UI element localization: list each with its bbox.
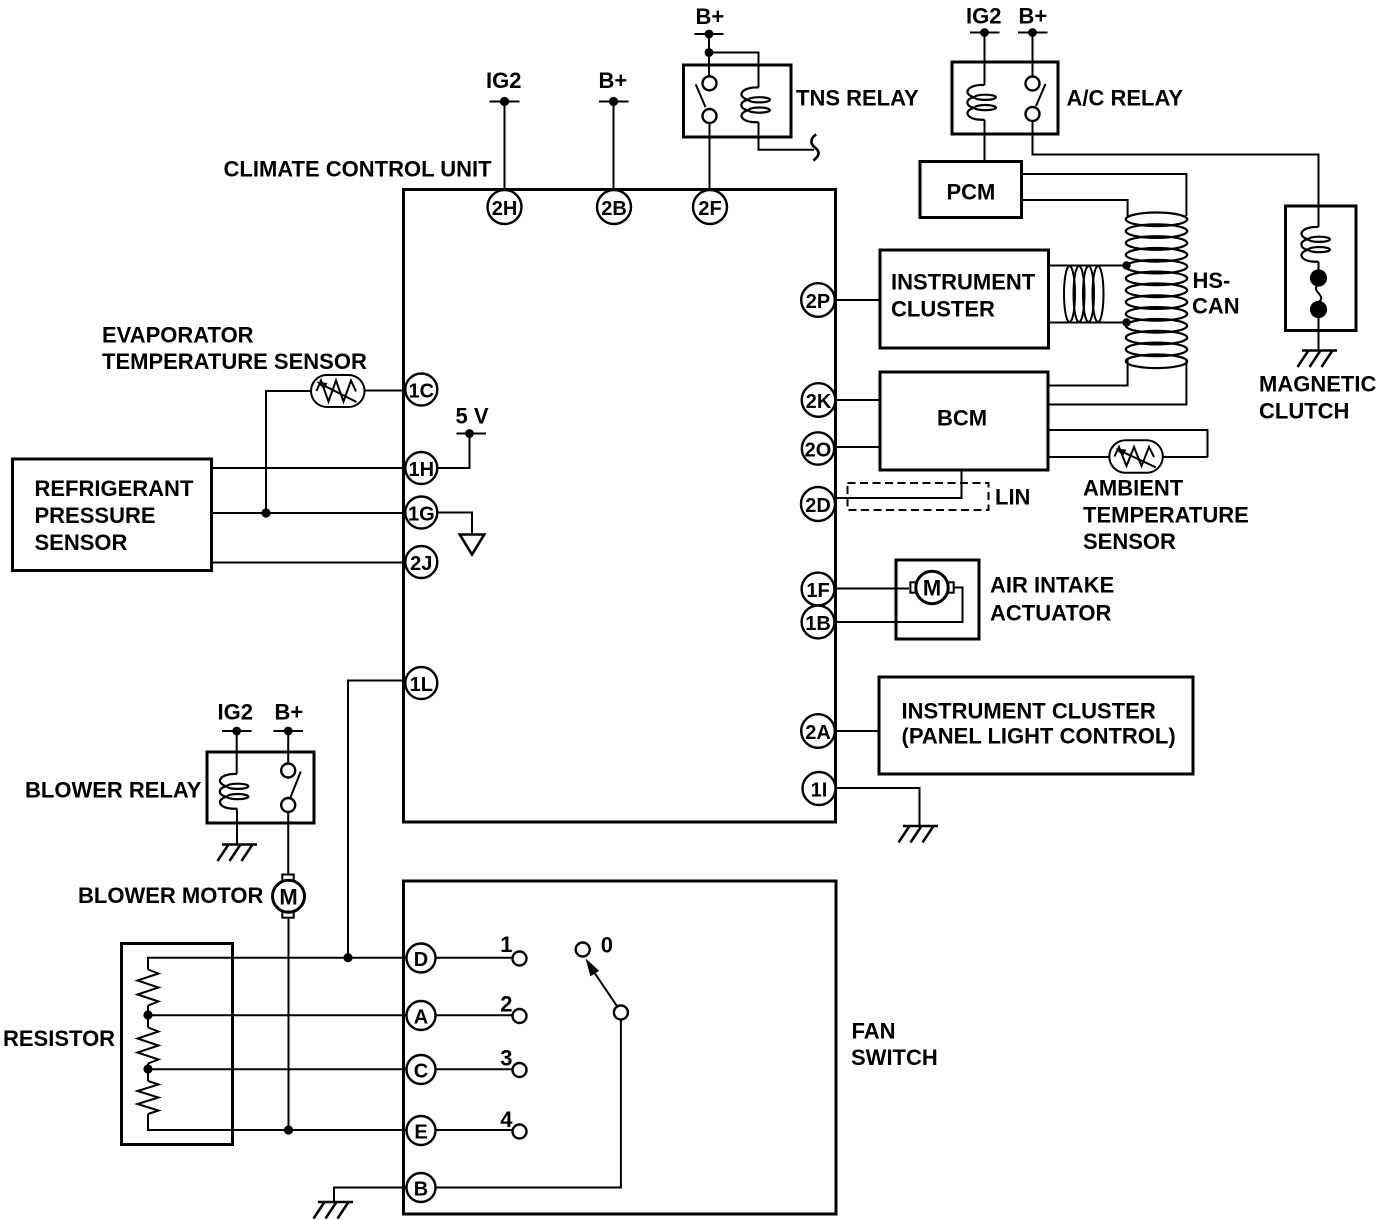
pin D [407, 944, 436, 973]
wire refrigerant sensor to pin 1G [212, 512, 406, 514]
magnetic clutch box [1286, 206, 1357, 331]
refrigerant pressure sensor label [35, 476, 194, 555]
node junction blower motor on E line [284, 1125, 293, 1134]
svg-text:1F: 1F [806, 580, 829, 602]
fan contact 0 [576, 943, 590, 957]
svg-text:CLUTCH: CLUTCH [1259, 399, 1349, 424]
blower relay box [207, 752, 314, 823]
svg-text:0: 0 [601, 933, 613, 958]
wire pin 2O to BCM [835, 446, 881, 448]
wire tap2 [147, 1064, 149, 1082]
svg-text:2D: 2D [805, 495, 831, 517]
wire pin 1B to actuator motor [835, 588, 963, 623]
wire clutch to ground [1318, 317, 1320, 351]
svg-text:C: C [414, 1060, 428, 1082]
svg-text:ACTUATOR: ACTUATOR [990, 600, 1112, 625]
PCM box [920, 162, 1022, 218]
svg-text:B: B [414, 1178, 428, 1200]
climate control unit U1 box [404, 190, 836, 823]
svg-text:HS-: HS- [1193, 268, 1231, 293]
wire B+ to A/C switch [1032, 33, 1034, 77]
fan switch moving contact [614, 1006, 628, 1020]
ground (fan switch B) [314, 1202, 354, 1219]
wire pin 1F to actuator motor [835, 588, 910, 590]
resistor R1 element [138, 970, 159, 1006]
fan contact 2 [513, 1009, 527, 1023]
node TNS B+ junction [705, 48, 714, 57]
LIN dashed box [848, 483, 989, 510]
svg-text:B+: B+ [1019, 4, 1048, 29]
wire A/C switch to magnetic clutch [1033, 121, 1319, 206]
power B+ (top) [599, 68, 629, 106]
ambient temperature sensor label [1083, 476, 1249, 554]
svg-text:1I: 1I [811, 779, 828, 801]
svg-text:PRESSURE: PRESSURE [35, 503, 156, 528]
svg-text:1C: 1C [409, 380, 435, 402]
fan contact 4 [513, 1125, 527, 1139]
svg-text:CAN: CAN [1192, 294, 1240, 319]
TNS relay switch contact top [703, 76, 717, 90]
wire PCM to HS-CAN right [1022, 174, 1187, 216]
node resistor tap 1 [143, 1010, 152, 1019]
pin 2B [597, 190, 631, 224]
pin 2K [802, 383, 836, 417]
svg-text:BCM: BCM [937, 406, 987, 431]
ambient temperature sensor thermistor [1109, 440, 1163, 473]
wire IG2 to A/C coil [984, 33, 986, 86]
svg-text:2F: 2F [698, 198, 721, 220]
wire BCM to ambient sensor loop top [1048, 430, 1208, 457]
node junction on 1G line [261, 508, 270, 517]
wire pin A to contact 2 [436, 1014, 513, 1016]
wire pin 1G to ground arrow [437, 513, 472, 535]
svg-text:IG2: IG2 [966, 4, 1001, 29]
svg-text:2J: 2J [410, 553, 432, 575]
svg-text:B+: B+ [599, 68, 628, 93]
blower relay switch contact bottom [281, 798, 295, 812]
svg-text:2P: 2P [806, 291, 830, 313]
ground (pin 1I) [899, 826, 939, 843]
wire ambient sensor loop bottom left [1048, 456, 1110, 458]
wire A/C coil to PCM [984, 120, 986, 162]
svg-text:2A: 2A [805, 722, 831, 744]
blower relay switch contact top [281, 764, 295, 778]
resistor R2 element [138, 1028, 159, 1064]
svg-text:2: 2 [500, 991, 512, 1016]
HS-CAN label [1192, 268, 1240, 319]
pin 2A [801, 714, 835, 748]
refrigerant pressure sensor box [13, 459, 212, 571]
wire 5 V to pin 1H [437, 434, 470, 469]
svg-text:REFRIGERANT: REFRIGERANT [35, 476, 194, 501]
fan switch rotor arm with arrow [586, 958, 618, 1006]
A/C relay switch blade [1036, 84, 1046, 106]
pin 2J [405, 546, 437, 578]
node CAN-H junction [1122, 261, 1130, 269]
svg-text:SENSOR: SENSOR [1083, 529, 1176, 554]
instrument cluster label [891, 270, 1036, 322]
magnetic clutch label [1259, 372, 1376, 424]
evaporator temperature sensor thermistor [311, 375, 365, 407]
wire pin 2P to instrument cluster [835, 299, 881, 301]
wire blower motor to E line [288, 919, 290, 1131]
instrument cluster box [880, 250, 1049, 348]
evaporator temperature sensor label [102, 323, 367, 375]
svg-text:2K: 2K [806, 391, 832, 413]
pin 2O [802, 432, 834, 464]
svg-text:B+: B+ [696, 4, 725, 29]
wire tap1 to pin A [148, 1014, 407, 1016]
wire twisted pair top [1048, 265, 1127, 267]
fan switch label [851, 1019, 938, 1071]
instrument cluster (panel light control) label [902, 698, 1176, 748]
svg-text:PCM: PCM [947, 180, 996, 205]
blower motor M2 [273, 875, 305, 918]
svg-text:D: D [414, 949, 428, 971]
svg-text:AIR INTAKE: AIR INTAKE [990, 573, 1114, 598]
ground (blower relay) [218, 845, 258, 862]
A/C relay switch contact bottom [1026, 107, 1040, 121]
wire pin D to contact 1 [436, 957, 513, 959]
wire IG2 to pin 2H [504, 102, 506, 191]
wire pin C to contact 3 [436, 1068, 513, 1070]
svg-text:CLUSTER: CLUSTER [891, 297, 995, 322]
svg-text:1B: 1B [805, 613, 831, 635]
power B+ (TNS relay) [695, 4, 725, 38]
power 5 V [456, 404, 489, 438]
wire pin E to contact 4 [436, 1129, 513, 1131]
svg-text:INSTRUMENT: INSTRUMENT [891, 270, 1036, 295]
svg-text:EVAPORATOR: EVAPORATOR [102, 323, 254, 348]
svg-text:BLOWER MOTOR: BLOWER MOTOR [78, 883, 263, 908]
wire evap sensor to pin 1C [365, 390, 406, 392]
TNS relay switch blade [696, 84, 706, 107]
wire BCM to LIN [835, 470, 962, 498]
wire moving contact to pin B [436, 1020, 621, 1188]
wire pin 1I to ground [835, 788, 920, 826]
wire IG2 to blower coil [236, 731, 238, 774]
svg-text:1L: 1L [410, 674, 433, 696]
pin E [407, 1116, 436, 1145]
power B+ (blower relay) [274, 700, 304, 736]
wire TNS coil to squiggle [759, 122, 815, 150]
wire twisted pair bottom [1048, 322, 1127, 324]
svg-text:FAN: FAN [852, 1019, 896, 1044]
pin 1L [405, 667, 437, 699]
svg-text:3: 3 [500, 1045, 512, 1070]
fan switch box [404, 881, 837, 1214]
svg-text:2O: 2O [805, 439, 832, 461]
clutch flexible link squiggle [1316, 285, 1321, 302]
pin 1I [803, 772, 836, 805]
wire PCM to HS-CAN left [1022, 200, 1128, 216]
node junction 1L on D line [343, 953, 352, 962]
wire pin 2K to BCM [835, 399, 881, 401]
air intake actuator motor M1 [910, 571, 953, 603]
resistor R3 element [138, 1081, 159, 1114]
svg-text:1H: 1H [409, 459, 435, 481]
wire B+ junction to TNS coil [709, 53, 759, 88]
blower relay coil [220, 774, 249, 809]
pin 1H [405, 452, 437, 484]
wire pin B to ground [334, 1188, 407, 1203]
svg-text:TNS RELAY: TNS RELAY [796, 86, 919, 111]
wire HS-CAN right bottom to BCM [1048, 360, 1186, 405]
wire refrigerant sensor to pin 2J [212, 562, 406, 564]
svg-text:MAGNETIC: MAGNETIC [1259, 372, 1376, 397]
node resistor tap 2 [143, 1064, 152, 1073]
BCM box [880, 372, 1048, 470]
svg-text:IG2: IG2 [218, 700, 253, 725]
power IG2 (A/C relay) [966, 4, 1001, 37]
ground (magnetic clutch) [1298, 351, 1338, 368]
TNS relay coil [741, 87, 770, 122]
ground arrow (pin 1G) [460, 535, 484, 555]
svg-text:SENSOR: SENSOR [35, 530, 128, 555]
wire evap sensor to 1G node [266, 391, 311, 513]
svg-text:1: 1 [500, 932, 512, 957]
svg-text:CLIMATE CONTROL UNIT: CLIMATE CONTROL UNIT [224, 157, 493, 182]
svg-text:B+: B+ [275, 700, 304, 725]
svg-text:IG2: IG2 [486, 68, 521, 93]
svg-text:SWITCH: SWITCH [851, 1045, 938, 1070]
svg-text:M: M [279, 884, 297, 909]
pin 2H [488, 190, 522, 224]
svg-text:AMBIENT: AMBIENT [1083, 476, 1184, 501]
pin C [407, 1055, 436, 1084]
svg-text:LIN: LIN [995, 485, 1030, 510]
wire refrigerant sensor to pin 1H [212, 467, 406, 469]
clutch contact dot lower [1310, 301, 1327, 318]
A/C relay switch contact top [1026, 77, 1040, 91]
pin 2P [801, 283, 835, 317]
fan contact 1 [513, 952, 527, 966]
wire tap2 to pin C [148, 1068, 407, 1070]
svg-text:4: 4 [500, 1107, 513, 1132]
svg-text:M: M [923, 576, 941, 601]
svg-text:A: A [414, 1006, 428, 1028]
wire TNS switch to pin 2F [709, 123, 711, 190]
instrument cluster (panel light control) box [879, 677, 1193, 774]
wire clutch coil to contact [1318, 262, 1320, 270]
squiggle continuation symbol [811, 135, 818, 161]
power IG2 (blower relay) [218, 700, 253, 736]
wire HS-CAN left bottom to BCM [1048, 358, 1128, 386]
svg-text:RESISTOR: RESISTOR [3, 1026, 115, 1051]
wire resistor top to pin D [148, 958, 407, 970]
svg-text:1G: 1G [408, 503, 435, 525]
wire B+ to pin 2B [613, 102, 615, 191]
wire resistor bottom to pin E [148, 1114, 407, 1130]
blower relay switch blade [290, 772, 301, 799]
svg-text:A/C RELAY: A/C RELAY [1067, 86, 1184, 111]
magnetic clutch coil [1301, 227, 1330, 262]
svg-text:INSTRUMENT CLUSTER: INSTRUMENT CLUSTER [902, 698, 1156, 723]
TNS relay box [684, 65, 792, 137]
pin B [407, 1173, 436, 1202]
A/C relay box [952, 62, 1058, 134]
pin 1G [405, 497, 437, 529]
clutch contact dot upper [1310, 269, 1327, 286]
svg-text:2H: 2H [492, 198, 518, 220]
air intake actuator label [990, 573, 1114, 626]
wire into clutch coil [1318, 206, 1320, 227]
power B+ (A/C relay) [1018, 4, 1048, 37]
wire pin 1L to fan switch D line [348, 681, 406, 959]
svg-text:TEMPERATURE: TEMPERATURE [1083, 503, 1249, 528]
pin 2D [801, 487, 835, 521]
pin 2F [693, 190, 727, 224]
svg-text:2B: 2B [601, 198, 627, 220]
TNS relay switch contact bottom [703, 109, 717, 123]
svg-text:5 V: 5 V [456, 404, 489, 429]
wire B+ to TNS switch [708, 34, 710, 77]
twisted pair coil [1064, 266, 1104, 322]
wire B+ to blower switch [287, 731, 289, 764]
fan contact 3 [513, 1063, 527, 1077]
node CAN-L junction [1122, 318, 1130, 326]
pin 1F [802, 573, 835, 606]
svg-text:(PANEL LIGHT CONTROL): (PANEL LIGHT CONTROL) [902, 724, 1176, 749]
wire blower coil to ground [236, 809, 238, 844]
air intake actuator box [896, 560, 979, 639]
wire blower switch to motor [287, 812, 289, 875]
svg-text:BLOWER RELAY: BLOWER RELAY [25, 778, 202, 803]
A/C relay coil [967, 85, 996, 120]
svg-text:TEMPERATURE SENSOR: TEMPERATURE SENSOR [102, 349, 367, 374]
wire ambient sensor loop bottom right [1162, 456, 1207, 458]
wire tap1 [147, 1006, 149, 1028]
HS-CAN bus coil [1126, 213, 1187, 369]
pin 1B [802, 606, 835, 639]
resistor box [122, 944, 233, 1145]
pin A [407, 1001, 436, 1030]
wire pin 2A to panel light cluster [835, 730, 880, 732]
svg-text:E: E [414, 1121, 427, 1143]
pin 1C [405, 374, 437, 406]
power IG2 (top) [486, 68, 521, 106]
